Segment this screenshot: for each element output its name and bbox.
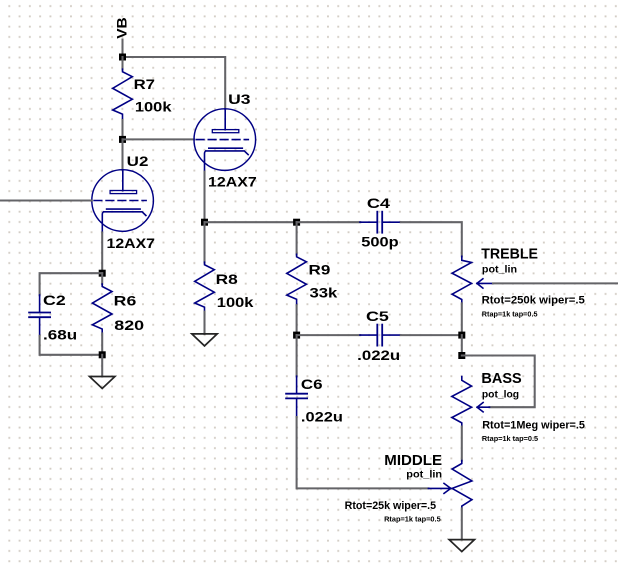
transistor U2 plate bar bbox=[110, 191, 137, 194]
transistor U3 plate bar bbox=[212, 130, 239, 133]
resistor R6 body bbox=[92, 284, 112, 333]
resistor R8 body bbox=[195, 262, 215, 311]
wire VB stub bbox=[121, 40, 123, 58]
transistor U2 cathode bbox=[102, 209, 146, 232]
svg-text:500p: 500p bbox=[361, 235, 398, 250]
wire R8 top lead bbox=[203, 222, 205, 262]
transistor U3 cathode bbox=[205, 148, 249, 171]
wire C4 to treble top bbox=[401, 222, 462, 256]
svg-text:Rtap=1k tap=0.5: Rtap=1k tap=0.5 bbox=[482, 309, 538, 318]
svg-text:100k: 100k bbox=[217, 295, 254, 310]
svg-text:U2: U2 bbox=[127, 154, 149, 169]
svg-text:pot_lin: pot_lin bbox=[482, 265, 517, 276]
wire VB junction to U3 plate column bbox=[123, 57, 226, 109]
svg-text:C4: C4 bbox=[367, 196, 391, 211]
svg-text:C6: C6 bbox=[301, 377, 323, 392]
wire R9 bottom lead bbox=[296, 305, 298, 335]
wire J3 to C2 bbox=[40, 273, 103, 295]
wire J5 to J6 bbox=[205, 221, 297, 223]
svg-text:Rtot=250k wiper=.5: Rtot=250k wiper=.5 bbox=[482, 294, 585, 306]
svg-text:Rtot=1Meg wiper=.5: Rtot=1Meg wiper=.5 bbox=[482, 420, 585, 432]
wire R8 bottom lead bbox=[203, 312, 205, 334]
svg-text:R7: R7 bbox=[134, 77, 156, 92]
svg-text:TREBLE: TREBLE bbox=[481, 245, 538, 262]
node junction J1 bbox=[119, 54, 126, 61]
wire J2 to U2 plate bbox=[121, 139, 123, 169]
resistor R9 body bbox=[287, 254, 307, 305]
ground G2 bbox=[192, 334, 217, 346]
wire J6 to C4 bbox=[297, 221, 361, 223]
svg-text:U3: U3 bbox=[228, 92, 251, 107]
svg-text:R9: R9 bbox=[309, 262, 331, 277]
svg-text:MIDDLE: MIDDLE bbox=[384, 452, 442, 469]
wire R7 bottom lead bbox=[121, 120, 123, 139]
svg-text:Rtap=1k tap=0.5: Rtap=1k tap=0.5 bbox=[482, 434, 539, 443]
op-amp U2 tube circle bbox=[92, 170, 154, 232]
potentiometer MIDDLE wiper arrow bbox=[428, 483, 450, 493]
capacitor C5 bbox=[360, 325, 401, 346]
wire R7 top lead bbox=[121, 57, 123, 69]
node junction J4 bbox=[99, 351, 106, 358]
svg-text:820: 820 bbox=[114, 318, 144, 333]
node junction J2 bbox=[119, 136, 126, 143]
svg-text:R8: R8 bbox=[216, 272, 239, 287]
node junction J9 bbox=[458, 352, 465, 359]
potentiometer MIDDLE body bbox=[452, 461, 472, 509]
potentiometer BASS wiper arrow bbox=[477, 403, 489, 412]
node junction J6 bbox=[293, 219, 300, 226]
svg-text:C5: C5 bbox=[366, 309, 389, 324]
transistor U2 grid dashed line bbox=[94, 200, 146, 202]
svg-text:12AX7: 12AX7 bbox=[107, 236, 156, 251]
ground G3 bbox=[449, 540, 474, 552]
node junction J5 bbox=[201, 219, 208, 226]
wire U2 cathode to J3 bbox=[101, 233, 103, 274]
node junction J8 bbox=[458, 332, 465, 339]
resistor R7 body bbox=[113, 69, 133, 120]
wire R6 bottom lead bbox=[101, 333, 103, 354]
svg-text:.022u: .022u bbox=[357, 348, 400, 363]
potentiometer BASS body bbox=[452, 377, 472, 427]
capacitor C4 bbox=[360, 212, 401, 233]
ground G1 bbox=[90, 377, 115, 389]
svg-text:BASS: BASS bbox=[481, 370, 521, 387]
svg-text:100k: 100k bbox=[135, 99, 172, 114]
wire C5 to J8 bbox=[401, 334, 462, 336]
wire middle bottom to ground bbox=[461, 508, 463, 539]
svg-text:C2: C2 bbox=[43, 293, 66, 308]
wire R6 top lead bbox=[101, 273, 103, 284]
svg-text:pot_lin: pot_lin bbox=[406, 470, 442, 481]
svg-text:pot_log: pot_log bbox=[482, 390, 519, 401]
wire U3 cathode to J5 bbox=[203, 172, 205, 223]
wire C6 to middle wiper bbox=[297, 417, 429, 488]
wire treble wiper to right edge bbox=[493, 282, 618, 284]
node junction J7 bbox=[293, 332, 300, 339]
wire input to U2 grid bbox=[0, 199, 92, 201]
wire treble bottom to J8 bbox=[461, 303, 463, 335]
wire C6 column bbox=[296, 335, 298, 376]
wire R9 top lead bbox=[296, 222, 298, 254]
wire J2 to U3 grid bbox=[123, 138, 195, 140]
svg-text:R6: R6 bbox=[114, 294, 137, 309]
capacitor C2 bbox=[29, 295, 50, 336]
svg-text:Rtap=1k tap=0.5: Rtap=1k tap=0.5 bbox=[384, 515, 441, 524]
svg-text:33k: 33k bbox=[310, 286, 338, 301]
potentiometer TREBLE wiper arrow bbox=[477, 279, 493, 288]
transistor U2 plate lead bbox=[122, 170, 124, 191]
svg-text:VB: VB bbox=[114, 17, 129, 39]
wire C2 bottom to J4 bbox=[40, 336, 103, 355]
svg-text:.022u: .022u bbox=[301, 409, 343, 424]
wire J4 to ground bbox=[101, 355, 103, 377]
svg-text:.68u: .68u bbox=[43, 328, 77, 343]
transistor U3 grid dashed line bbox=[196, 139, 248, 141]
wire bass wiper loop bbox=[462, 356, 535, 408]
wire J7 to C5 bbox=[297, 334, 361, 336]
svg-text:12AX7: 12AX7 bbox=[208, 174, 257, 189]
transistor U3 plate lead bbox=[224, 109, 226, 130]
wire bass bottom to middle top bbox=[461, 427, 463, 461]
potentiometer TREBLE body bbox=[452, 256, 471, 303]
node junction J3 bbox=[99, 270, 106, 277]
svg-text:Rtot=25k wiper=.5: Rtot=25k wiper=.5 bbox=[345, 500, 437, 512]
op-amp U3 tube circle bbox=[194, 109, 256, 171]
wire J8 to J9 bbox=[461, 335, 463, 355]
capacitor C6 bbox=[286, 376, 307, 417]
